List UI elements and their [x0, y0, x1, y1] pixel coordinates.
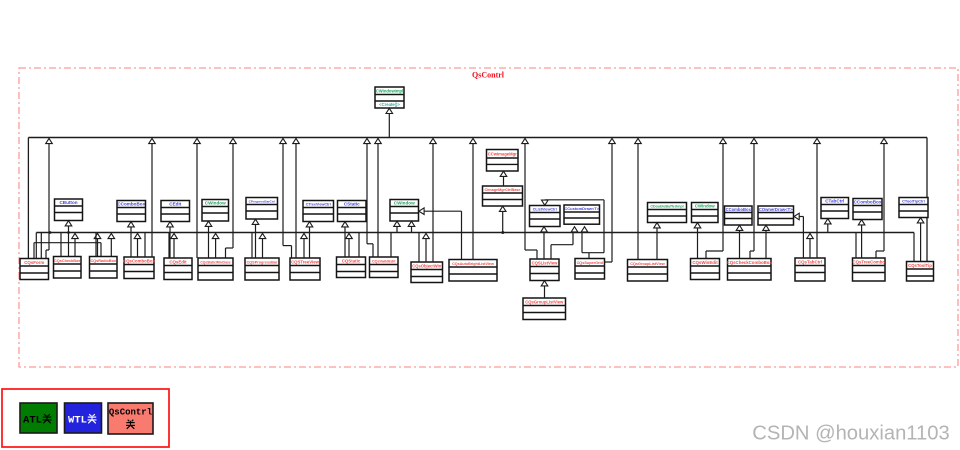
svg-text:CQsTabCtrl: CQsTabCtrl	[798, 259, 822, 264]
svg-text:CEdit: CEdit	[169, 202, 181, 207]
svg-text:CTabCtrl: CTabCtrl	[825, 199, 844, 204]
svg-text:CQsGroupListView: CQsGroupListView	[630, 262, 665, 266]
svg-text:CComboBox: CComboBox	[854, 200, 882, 205]
svg-text:CImageMgrCtrlBase: CImageMgrCtrlBase	[485, 188, 521, 192]
svg-text:CComboBox: CComboBox	[117, 202, 145, 207]
svg-text:CCustomDraw<T>: CCustomDraw<T>	[564, 206, 599, 211]
svg-text:QsContrl: QsContrl	[472, 71, 505, 80]
svg-text:<Create()>: <Create()>	[379, 102, 400, 107]
svg-text:CQSListView: CQSListView	[532, 260, 559, 265]
svg-text:QsContrl: QsContrl	[109, 408, 153, 418]
svg-text:CQsTreeCombo: CQsTreeCombo	[853, 259, 886, 264]
svg-text:CQsStaticWinClass: CQsStaticWinClass	[200, 260, 230, 264]
svg-text:ATL: ATL	[23, 415, 42, 427]
svg-text:CQsValidEdit: CQsValidEdit	[372, 259, 396, 263]
svg-text:CQStatic: CQStatic	[342, 258, 361, 263]
svg-text:CWindow: CWindow	[205, 201, 226, 206]
svg-text:CQsRadioBox: CQsRadioBox	[90, 259, 116, 263]
svg-text:CButton: CButton	[59, 200, 77, 205]
svg-text:CQsGroupListView: CQsGroupListView	[525, 299, 564, 304]
svg-text:CQsComboBox: CQsComboBox	[123, 258, 155, 263]
svg-text:CListViewCtrl: CListViewCtrl	[533, 208, 557, 212]
svg-text:CQsWinEdit: CQsWinEdit	[692, 260, 718, 265]
svg-text:CQsForm: CQsForm	[24, 260, 44, 265]
svg-text:CDoubleBufferImpl: CDoubleBufferImpl	[650, 205, 683, 209]
svg-text:CQsAutoBrightListView: CQsAutoBrightListView	[452, 262, 494, 266]
svg-text:COwnerDraw<T>: COwnerDraw<T>	[759, 207, 793, 212]
svg-text:CQSProgressBar: CQSProgressBar	[246, 260, 278, 264]
svg-text:CQsCheckComboBox: CQsCheckComboBox	[727, 260, 773, 265]
svg-text:CProgressBarCtrl: CProgressBarCtrl	[249, 200, 275, 204]
svg-text:CCwImageMgr: CCwImageMgr	[488, 151, 517, 156]
svg-text:CStatic: CStatic	[344, 202, 360, 207]
svg-text:CToolTipCtrl: CToolTipCtrl	[902, 200, 925, 204]
svg-text:CWindow: CWindow	[695, 204, 716, 209]
svg-text:CTreeViewCtrl: CTreeViewCtrl	[306, 203, 331, 207]
svg-text:CQsObjectWin: CQsObjectWin	[412, 263, 442, 268]
svg-text:CQSTreeView: CQSTreeView	[291, 259, 320, 264]
svg-text:CWindow: CWindow	[394, 201, 415, 206]
svg-text:CComboBox: CComboBox	[726, 207, 752, 212]
svg-text:CQsSuperGrid: CQsSuperGrid	[577, 261, 604, 265]
svg-text:CSDN @houxian1103: CSDN @houxian1103	[752, 423, 949, 445]
svg-text:CQsToolTip: CQsToolTip	[908, 263, 932, 268]
svg-text:CQsEdit: CQsEdit	[169, 259, 187, 264]
svg-text:CWindowImpl: CWindowImpl	[376, 88, 403, 93]
svg-text:CQsCheckBox: CQsCheckBox	[54, 259, 81, 263]
svg-text:WTL: WTL	[68, 415, 87, 427]
